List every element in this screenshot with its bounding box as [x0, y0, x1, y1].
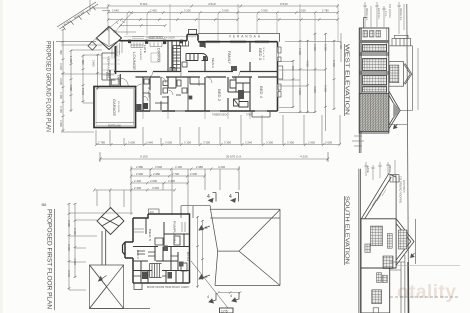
- GF top dimension row B: [107, 11, 339, 14]
- GF door swing arcs: [120, 72, 240, 96]
- GF verandah left strip: [102, 53, 116, 80]
- GF fridge dark box: [200, 43, 206, 48]
- WE window grid row 4: [363, 87, 387, 93]
- svg-text:4 SEATER: 4 SEATER: [139, 49, 142, 60]
- GF top dimension row B labels: [112, 8, 329, 12]
- SE eave line extension: [396, 265, 460, 267]
- FF roof dim row below: [217, 291, 242, 294]
- GF kitchen bench with curve: [186, 54, 208, 61]
- GF interior vertical walls upper: [168, 41, 250, 72]
- GF hall door arcs lower-left: [136, 84, 149, 101]
- svg-text:RIDGE R.L.: RIDGE R.L.: [399, 8, 402, 22]
- svg-text:2 900: 2 900: [136, 172, 143, 176]
- GF porch walls above garage: [110, 70, 120, 87]
- svg-text:3 640: 3 640: [59, 63, 63, 70]
- GF window breaks on right wall: [277, 47, 279, 97]
- garage door line: [96, 122, 135, 124]
- svg-text:3 300: 3 300: [224, 140, 231, 144]
- GF porch stubs below bottom wall: [252, 111, 270, 117]
- FF flue link walls: [102, 230, 106, 266]
- SE roof plane diagonals: [361, 174, 396, 219]
- FF section marker 4B top: [231, 193, 239, 203]
- FF top dimension rows: [93, 166, 240, 215]
- svg-text:3 300: 3 300: [313, 44, 317, 51]
- svg-text:150 FASCIA: 150 FASCIA: [388, 4, 391, 18]
- GF bottom wall: [136, 110, 278, 112]
- svg-text:5 540: 5 540: [81, 88, 85, 95]
- GF top wall left section: [119, 30, 278, 42]
- svg-text:2 900: 2 900: [59, 120, 63, 127]
- FF section marker 4B bottom: [232, 292, 239, 302]
- WE main wall band: [359, 28, 389, 133]
- GF bottom dimension row: [95, 115, 341, 146]
- svg-text:3 900: 3 900: [298, 88, 302, 95]
- svg-text:3 100: 3 100: [175, 165, 182, 169]
- FF left bay chamfers: [123, 242, 126, 255]
- svg-text:TIMBER DECK: TIMBER DECK: [212, 115, 228, 117]
- SE ridge chimney cap: [390, 175, 399, 183]
- FF bath cluster: [137, 236, 187, 271]
- bay step landing (rotated square): [88, 42, 97, 51]
- svg-text:BATH: BATH: [186, 252, 190, 261]
- WE floor band: [359, 40, 389, 43]
- WE dormer window: [390, 65, 399, 83]
- FF dim chain inside roof: [196, 216, 204, 288]
- svg-text:3 400: 3 400: [73, 228, 77, 235]
- left scan edge shade: [0, 0, 3, 313]
- svg-text:2 780: 2 780: [322, 8, 329, 12]
- svg-text:TIMBER PERGOLA OVER: TIMBER PERGOLA OVER: [146, 37, 175, 40]
- svg-text:2 980: 2 980: [136, 165, 143, 169]
- FF marker 4A mid-roof: [199, 275, 210, 279]
- SE mid floor line: [361, 267, 396, 269]
- GF interior vertical walls lower: [136, 77, 251, 111]
- svg-text:STEP: STEP: [246, 115, 252, 117]
- GF fireplace block: [231, 66, 237, 71]
- svg-text:3 000: 3 000: [59, 78, 63, 85]
- svg-text:4 230: 4 230: [218, 165, 225, 169]
- WE 4B marker: [394, 124, 398, 129]
- SE lower window grid: [372, 290, 382, 304]
- dim drop to bay: [90, 0, 110, 12]
- SE lower small windows: [377, 273, 382, 283]
- FF left dimension chain: [68, 203, 134, 290]
- FF room labels: [136, 221, 190, 289]
- svg-text:4: 4: [230, 294, 232, 298]
- svg-text:4: 4: [207, 295, 209, 299]
- svg-text:3.6 x 3.0: 3.6 x 3.0: [262, 47, 264, 61]
- GF study closet + entry details: [143, 77, 188, 111]
- svg-text:4 510: 4 510: [208, 2, 216, 6]
- WE divider band 1: [359, 53, 389, 55]
- svg-text:9 150: 9 150: [140, 155, 148, 159]
- GF top wall window piers: [128, 40, 183, 44]
- SE lower wall: [361, 268, 390, 313]
- svg-text:3 640: 3 640: [67, 270, 71, 277]
- WE ground datum double line: [359, 28, 361, 153]
- GF laundry cluster: [170, 62, 187, 72]
- FF chimney diamond: [97, 208, 124, 235]
- GF top dimension row A: [107, 5, 339, 8]
- title: SOUTH ELEVATION: [344, 196, 350, 265]
- svg-text:3 000: 3 000: [128, 140, 135, 144]
- svg-text:3 600: 3 600: [67, 244, 71, 251]
- GF window breaks on bottom wall: [150, 110, 267, 112]
- svg-text:4 100: 4 100: [73, 258, 77, 265]
- FF section marker 4A bottom: [209, 293, 216, 303]
- svg-text:EAVE R.L.: EAVE R.L.: [377, 8, 380, 20]
- GF house left wall: [115, 46, 117, 74]
- svg-text:690: 690: [59, 50, 63, 55]
- svg-text:KITCH: KITCH: [179, 68, 183, 77]
- diagonal dim to bay corner: [114, 11, 133, 32]
- GF top dimension row C: [107, 18, 339, 27]
- FF roof dormer boxes: [181, 206, 210, 218]
- GF left chain 2 labels: [69, 56, 85, 95]
- WE window grid row 3: [363, 76, 387, 86]
- GF top dimension row A labels: [140, 2, 288, 6]
- svg-text:22.5 PITCH: 22.5 PITCH: [402, 180, 405, 193]
- SE roof slope ticks: [367, 190, 386, 211]
- svg-text:4 000: 4 000: [306, 60, 310, 67]
- svg-text:1 200: 1 200: [69, 56, 73, 63]
- long section datum vertical line: [407, 4, 409, 313]
- GF windows on top wall: [132, 36, 269, 43]
- svg-text:PORTE A/W: PORTE A/W: [108, 124, 122, 127]
- svg-text:2 400: 2 400: [59, 92, 63, 99]
- svg-text:2 600: 2 600: [190, 172, 197, 176]
- SE ground datum double line: [359, 169, 361, 313]
- FF left chain labels: [67, 220, 77, 277]
- SE small window near gable: [387, 234, 392, 249]
- WE attic window row: [363, 31, 381, 38]
- SE gable triangle: [396, 219, 414, 265]
- SE top dim labels: [366, 165, 391, 173]
- WE base step marks: [352, 136, 364, 146]
- GF left chain 1 labels: [59, 50, 63, 127]
- GF verandah roof edge (top right): [198, 34, 280, 42]
- FF dark fixtures: [142, 272, 148, 280]
- svg-text:3 100: 3 100: [59, 106, 63, 113]
- svg-text:3 000: 3 000: [155, 165, 162, 169]
- svg-text:3 400: 3 400: [168, 179, 175, 183]
- svg-text:17/5: 17/5: [221, 310, 228, 313]
- svg-text:STUDY: STUDY: [147, 87, 151, 99]
- SE right dark window near gable base: [383, 256, 393, 269]
- svg-text:GARAGE: GARAGE: [112, 99, 116, 117]
- svg-text:3 300: 3 300: [287, 140, 294, 144]
- GF left dimension chain 1: [56, 29, 96, 132]
- svg-text:3 000: 3 000: [261, 8, 268, 12]
- svg-text:3 660: 3 660: [324, 85, 328, 92]
- GF right dimension chains: [279, 33, 341, 131]
- GF store shelf: [112, 79, 120, 85]
- svg-text:910: 910: [291, 66, 295, 71]
- title: WEST ELEVATION: [344, 44, 350, 116]
- svg-text:2 400: 2 400: [134, 179, 141, 183]
- svg-text:PROPOSED GROUND FLOOR PLAN: PROPOSED GROUND FLOOR PLAN: [45, 41, 51, 132]
- svg-text:3 000: 3 000: [165, 140, 172, 144]
- svg-text:RIDGE: RIDGE: [388, 165, 391, 173]
- FF top dim labels: [134, 165, 225, 190]
- WE dark hatched block: [359, 94, 389, 132]
- svg-text:6 360: 6 360: [332, 60, 336, 67]
- GF garage outer wall: [94, 87, 136, 128]
- GF dining table: [151, 53, 160, 62]
- svg-text:890: 890: [81, 60, 85, 65]
- WE main gable: [389, 91, 400, 129]
- GF pergola eave line above top wall: [124, 36, 196, 38]
- svg-text:PORCH: PORCH: [105, 72, 108, 80]
- svg-text:DINING: DINING: [157, 48, 161, 63]
- svg-text:3 000: 3 000: [222, 8, 229, 12]
- svg-text:26 670 O.A.: 26 670 O.A.: [226, 155, 242, 159]
- WE dormer box: [389, 62, 412, 87]
- svg-text:RUMPUS RM: RUMPUS RM: [173, 221, 177, 244]
- svg-text:ENTRY: ENTRY: [117, 75, 120, 84]
- svg-text:4: 4: [207, 194, 210, 200]
- svg-text:PROPOSED FIRST FLOOR PLAN: PROPOSED FIRST FLOOR PLAN: [46, 209, 52, 309]
- GF bottom row labels: [98, 140, 332, 144]
- svg-text:3 240: 3 240: [245, 140, 252, 144]
- svg-text:2 640: 2 640: [146, 140, 153, 144]
- svg-text:P/L FLOOR: P/L FLOOR: [117, 101, 119, 113]
- svg-text:BED 5: BED 5: [148, 229, 152, 241]
- svg-text:COLORBOND ROOFING: COLORBOND ROOFING: [399, 176, 402, 203]
- svg-text:2 600: 2 600: [298, 48, 302, 55]
- FF interior walls: [133, 218, 190, 283]
- GF corridor dark fixtures: [137, 104, 142, 110]
- FF robe lines: [134, 222, 185, 232]
- svg-text:2 980: 2 980: [196, 165, 203, 169]
- GF right wall: [277, 42, 279, 111]
- svg-text:4 980: 4 980: [69, 84, 73, 91]
- site boundary diagonal top-left: [57, 2, 98, 30]
- GF lounge left window ticks: [118, 52, 120, 64]
- GF lounge window mullions: [131, 43, 162, 48]
- svg-text:A/C: A/C: [150, 210, 154, 214]
- svg-text:3 300: 3 300: [203, 140, 210, 144]
- svg-text:FAMILY: FAMILY: [227, 51, 231, 65]
- GF room labels: [132, 45, 264, 101]
- svg-text:3 900: 3 900: [313, 86, 317, 93]
- SE upper wall: [361, 219, 396, 268]
- GF wc dark fixture: [238, 90, 244, 99]
- WE top dim ticks + rotated labels: [363, 2, 404, 34]
- svg-text:3 100: 3 100: [184, 8, 191, 12]
- FF garage hip roof: [90, 265, 151, 309]
- svg-text:2 600: 2 600: [150, 179, 157, 183]
- FF garage roof marker: [99, 276, 107, 282]
- GF corridor wall A: [114, 71, 278, 73]
- GF right chain labels: [291, 42, 343, 95]
- svg-text:BED 2: BED 2: [217, 89, 221, 101]
- SE 4 marker: [411, 253, 415, 258]
- svg-text:2 780: 2 780: [98, 140, 105, 144]
- GF entry store labels: [105, 72, 120, 84]
- svg-text:2 980: 2 980: [153, 172, 160, 176]
- FF leader diagonal: [191, 261, 228, 308]
- svg-text:2 600: 2 600: [325, 140, 332, 144]
- svg-text:2 980: 2 980: [67, 220, 71, 227]
- svg-text:4: 4: [229, 194, 232, 200]
- SE dashed floor line: [390, 296, 458, 298]
- svg-text:otality: otality: [397, 282, 456, 303]
- SE window grid upper: [371, 226, 383, 246]
- GF top dim extension verticals: [108, 4, 338, 42]
- svg-text:BED 6: BED 6: [136, 250, 140, 260]
- GF bath cluster walls: [168, 77, 250, 107]
- svg-text:RIDGE R.L.: RIDGE R.L.: [365, 8, 368, 22]
- FF AC box: [149, 209, 160, 214]
- FF rooms outer wall: [125, 214, 190, 283]
- svg-text:3 300: 3 300: [324, 44, 328, 51]
- svg-text:3 640: 3 640: [152, 186, 159, 190]
- GF kitchen dark sink: [203, 56, 207, 60]
- FF section marker 4A top: [209, 193, 217, 203]
- svg-text:BED 4: BED 4: [259, 86, 263, 98]
- WE divider band 2: [359, 72, 389, 74]
- SE lower door: [373, 308, 379, 313]
- GF overall dimension line 26670: [99, 152, 329, 162]
- GF verandah setback dim: [96, 54, 99, 90]
- svg-text:LATE: LATE: [143, 45, 146, 54]
- svg-text:3 660: 3 660: [92, 60, 96, 67]
- GF left dimension chain 2: [61, 45, 114, 132]
- title: PROPOSED FIRST FLOOR PLAN: [46, 209, 55, 310]
- svg-text:3 100: 3 100: [184, 140, 191, 144]
- SE right wing lines: [390, 255, 405, 313]
- svg-text:3 300: 3 300: [266, 140, 273, 144]
- GF short stubs below wall: [143, 111, 250, 119]
- GF pantry column: [173, 46, 181, 73]
- svg-text:2 600: 2 600: [339, 42, 343, 49]
- FF marker 4B mid-roof: [199, 226, 210, 230]
- svg-text:2 700: 2 700: [172, 172, 179, 176]
- WE chimney cap: [392, 35, 411, 46]
- FF small partitions: [133, 252, 178, 276]
- svg-text:BED 3: BED 3: [258, 48, 262, 60]
- svg-text:3 640: 3 640: [112, 8, 119, 12]
- FF title box bottom: [220, 308, 234, 313]
- svg-text:2 900: 2 900: [308, 140, 315, 144]
- svg-text:2 400: 2 400: [150, 8, 157, 12]
- svg-text:4 230: 4 230: [300, 155, 308, 159]
- GF washer dark box: [189, 96, 193, 100]
- SE upper-left small window: [365, 244, 371, 252]
- bay window turret: [93, 20, 136, 50]
- WE window grid row 2: [363, 59, 387, 71]
- svg-text:9 540: 9 540: [280, 2, 288, 6]
- svg-text:MEALS: MEALS: [211, 58, 215, 68]
- GF corridor wall B: [136, 76, 278, 78]
- GF stairs treads: [176, 41, 189, 46]
- darker lower part of datum line: [407, 262, 409, 313]
- svg-text:BOOST ROOM TRIM SHADY CARR: BOOST ROOM TRIM SHADY CARRY: [147, 286, 190, 289]
- title: PROPOSED GROUND FLOOR PLAN: [45, 41, 54, 133]
- svg-text:8 110: 8 110: [140, 2, 148, 6]
- SE apex vertical: [415, 219, 417, 264]
- SE gable window: [399, 230, 408, 249]
- bay window mullions: [112, 42, 122, 59]
- FF roof outline main: [210, 209, 280, 285]
- svg-text:LDRY: LDRY: [197, 78, 200, 86]
- GF protruding window boxes right wall: [278, 47, 283, 97]
- WE top corner stub: [364, 18, 367, 28]
- WE eave line to wing: [389, 46, 418, 125]
- WE gable face shade: [393, 102, 400, 120]
- WE window grid row 1: [363, 45, 387, 52]
- FF stair treads: [150, 264, 162, 278]
- svg-text:F.C.L.: F.C.L.: [384, 11, 387, 18]
- svg-text:2 300: 2 300: [134, 186, 141, 190]
- SE top dim ticks: [364, 160, 395, 180]
- svg-text:EAVE: EAVE: [366, 166, 369, 173]
- FF porch step bottom-left: [134, 283, 142, 290]
- svg-text:LOUNGE: LOUNGE: [132, 52, 136, 71]
- svg-text:B8: B8: [42, 202, 48, 207]
